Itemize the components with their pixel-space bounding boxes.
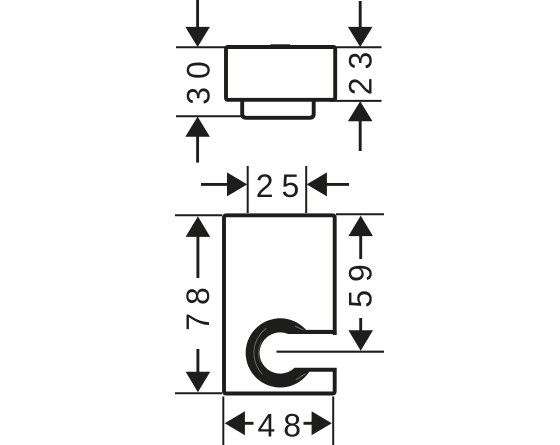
- dim 78: bottom segment: [196, 349, 199, 372]
- dim 48: left segment: [245, 422, 254, 425]
- extension line 25 right: [305, 166, 307, 213]
- highlight arc inner (white): [258, 341, 261, 363]
- dim 59: bottom arrow: [348, 330, 373, 351]
- dim 25 left tail: [201, 183, 228, 186]
- leader 30 top: [196, 0, 199, 28]
- white sliver top merge: [295, 326, 304, 330]
- extension line 78 bottom: [175, 392, 222, 394]
- extension line 25 left: [247, 166, 249, 213]
- white sliver bottom merge: [296, 374, 306, 380]
- dim 59: bottom segment: [359, 318, 362, 331]
- dim 78: top arrow: [186, 216, 211, 237]
- dim 48: right segment: [304, 422, 313, 425]
- dim 78: top segment: [196, 237, 199, 279]
- arrow 23 bottom: [348, 101, 373, 121]
- svg-text:59: 59: [343, 256, 379, 308]
- top-view body outline: [226, 47, 335, 100]
- extension line 48 left: [222, 397, 224, 445]
- svg-text:30: 30: [181, 53, 217, 105]
- arrow 23 top: [348, 27, 373, 47]
- svg-text:48: 48: [258, 408, 310, 444]
- arrow 25 left: [227, 172, 247, 196]
- dim 78: bottom arrow: [186, 372, 211, 393]
- bottom step of top view: [242, 100, 314, 118]
- dim 48: right arrow: [312, 411, 332, 435]
- leader 30 bottom: [196, 137, 199, 163]
- arrow 30 bottom: [185, 117, 210, 137]
- highlight arc outer (white): [254, 328, 266, 374]
- dim 25 right tail: [326, 183, 349, 186]
- holder C-band with slot walls (filled): [246, 318, 337, 387]
- dim 59: top arrow: [348, 216, 373, 237]
- extension line 59 top (from top-right corner): [336, 213, 384, 215]
- svg-text:78: 78: [180, 279, 216, 331]
- extension line bottom-left (30 lower datum): [176, 115, 244, 117]
- svg-text:23: 23: [342, 44, 378, 96]
- svg-text:25: 25: [256, 168, 308, 204]
- arrow 25 right: [307, 172, 327, 196]
- dim 48: left arrow: [225, 411, 245, 435]
- extension line 78 top: [175, 214, 222, 216]
- extension line top (30/23 upper datum): [176, 46, 382, 48]
- arrow 30 top: [185, 27, 210, 47]
- extension line bottom-right (23 lower datum): [330, 100, 382, 102]
- dim 59: top segment: [359, 236, 362, 259]
- slot centre line: [277, 351, 385, 353]
- leader 23 top: [359, 1, 362, 28]
- clip bump on top edge: [271, 44, 291, 47]
- side-view outer outline: [224, 215, 335, 393]
- leader 23 bottom: [359, 121, 362, 151]
- extension line 48 right: [332, 397, 334, 445]
